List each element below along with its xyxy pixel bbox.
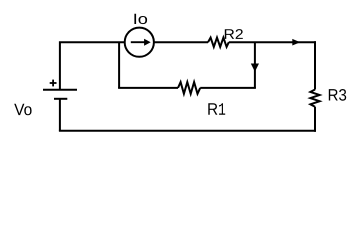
resistor R3 [310, 90, 319, 107]
bottom wire [59, 130, 316, 132]
current direction arrow down [251, 64, 259, 72]
battery Vo positive plate [43, 89, 77, 91]
wire R3 down to bottom-right corner [314, 107, 316, 132]
middle wire left of R1 [118, 87, 178, 89]
label R3 [329, 89, 346, 101]
current source arrow [131, 39, 151, 46]
battery plus sign [50, 80, 57, 87]
wire battery negative down to bottom wire [59, 99, 61, 131]
wire top-right corner down to R3 [314, 41, 316, 89]
label R2 [225, 29, 243, 39]
label R1 [208, 103, 225, 115]
wire battery positive up and right to current source [60, 42, 125, 89]
current source U1 circle [125, 28, 154, 57]
label Io [134, 14, 147, 24]
label Vo [14, 104, 31, 116]
wire current source to R2 [154, 41, 208, 43]
wire vertical branch down from top wire [118, 42, 120, 88]
wire vertical from top wire junction down to middle wire [254, 42, 256, 88]
resistor R1 [178, 82, 200, 94]
middle wire R1 to junction vertical [200, 87, 256, 89]
battery Vo negative plate [54, 98, 67, 100]
current direction arrow right on top wire [292, 39, 300, 46]
wire R2 to top-right corner [229, 41, 316, 43]
resistor R2 [208, 38, 229, 47]
